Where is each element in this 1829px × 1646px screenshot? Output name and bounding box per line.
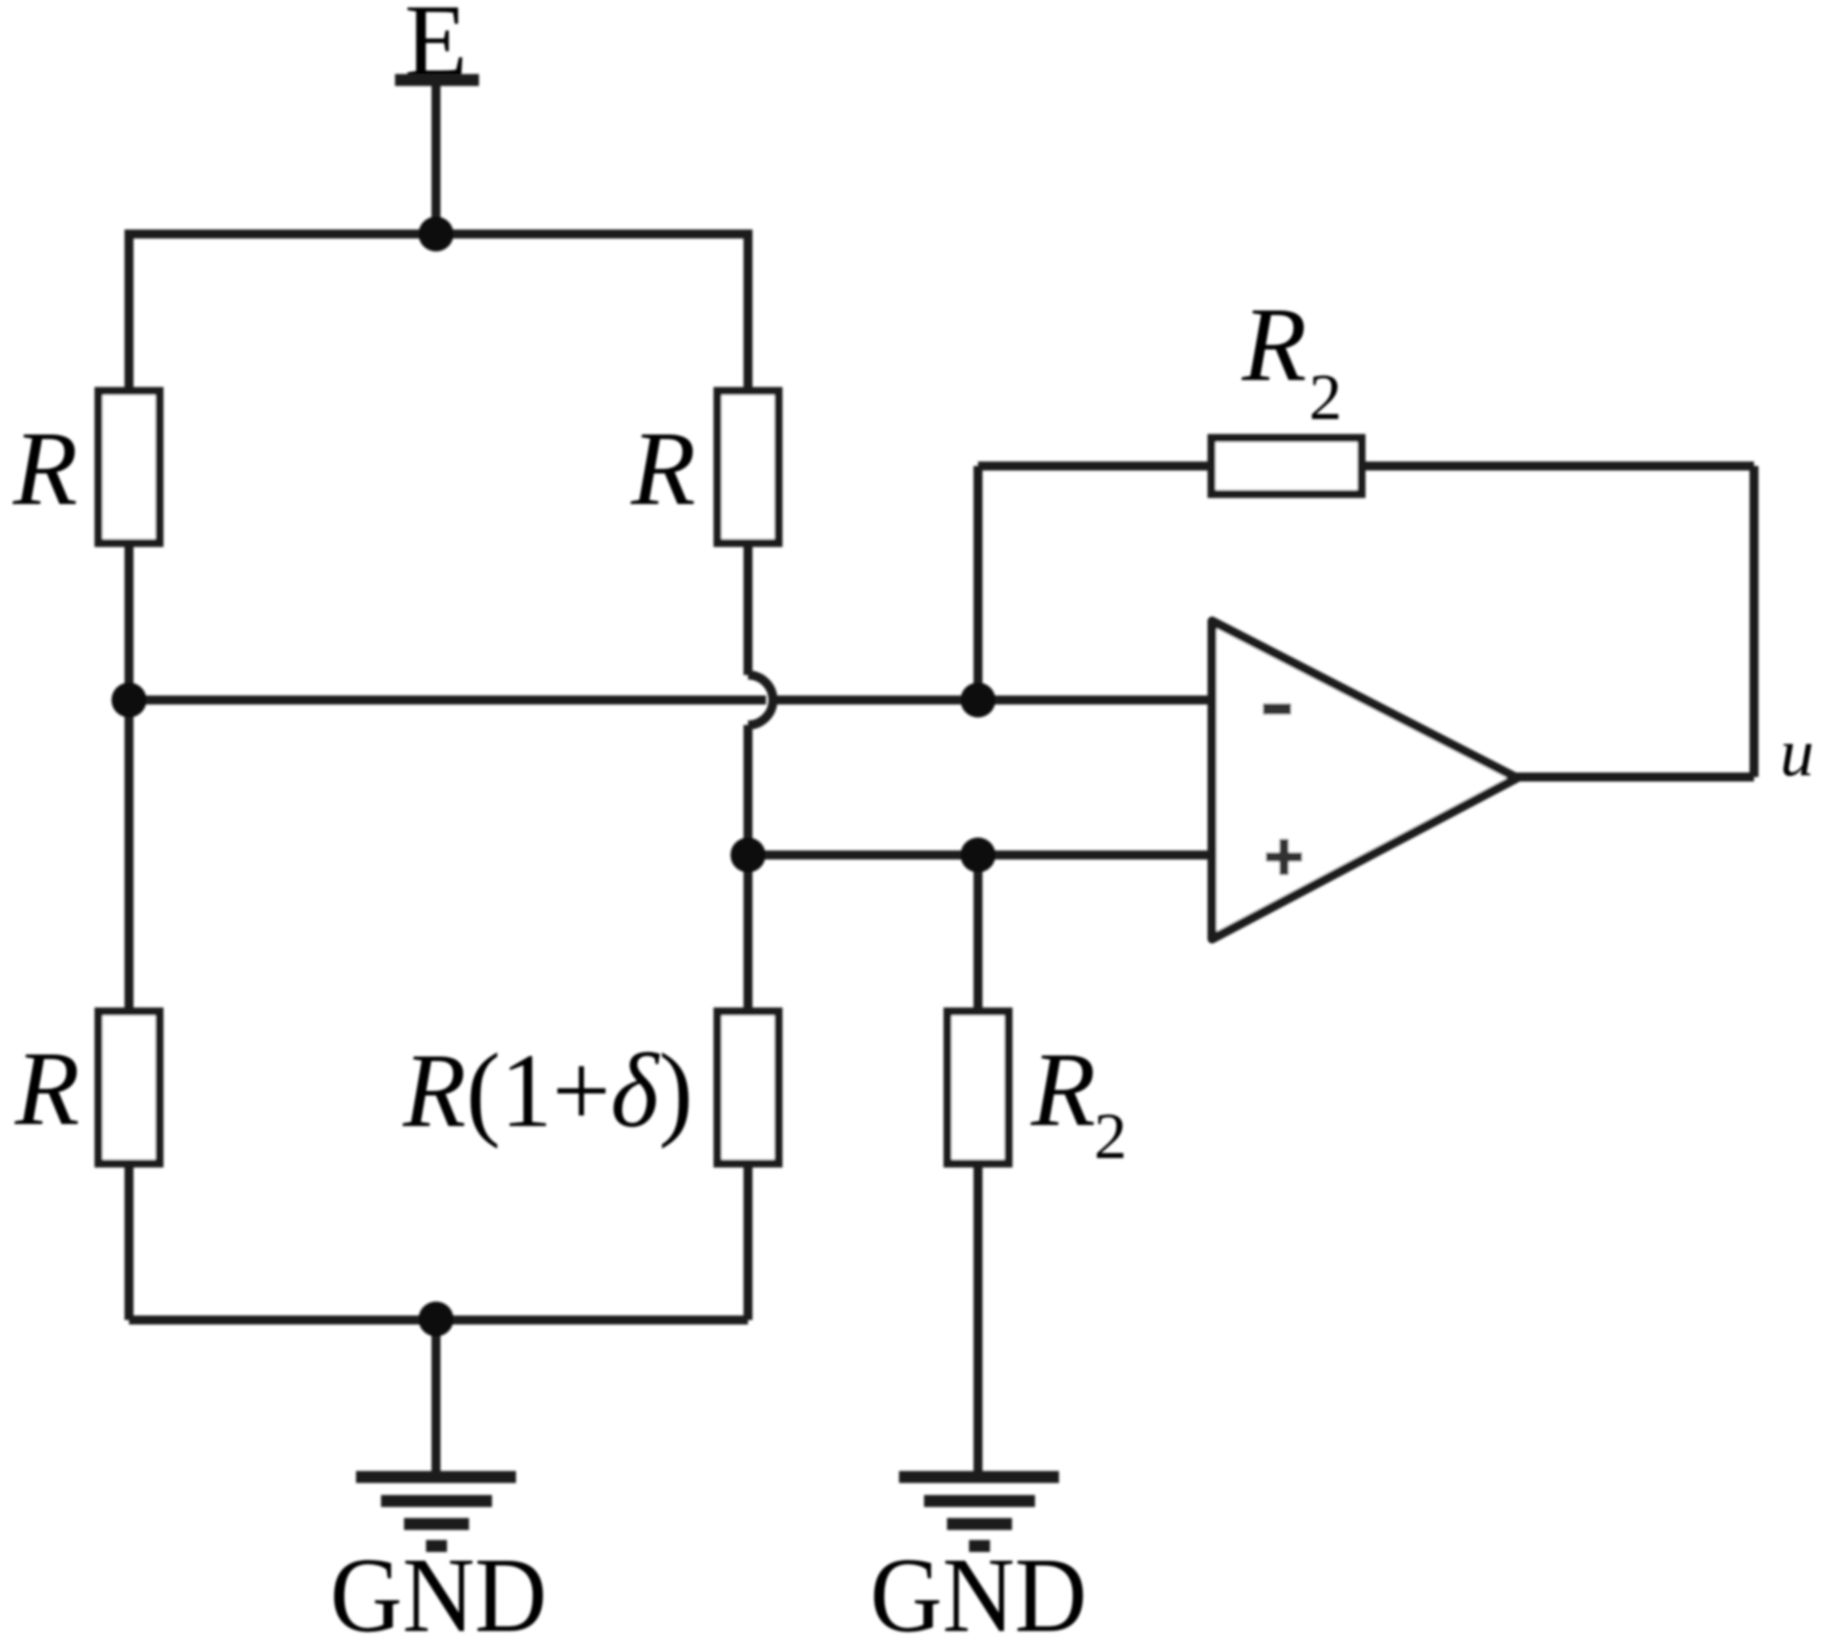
resistor R bottom-left: [99, 1012, 160, 1164]
wire op-amp output: [1513, 773, 1754, 782]
wire hop over mid wire: [748, 675, 773, 725]
node non-inverting dot: [961, 838, 996, 873]
resistor R top-left: [99, 391, 160, 543]
svg-text:GND: GND: [870, 1537, 1087, 1646]
node inverting input dot: [961, 683, 996, 718]
node bridge right dot: [731, 838, 766, 873]
svg-text:R: R: [12, 410, 78, 527]
wire bridge mid right to op-amp inverting input: [769, 696, 1212, 705]
resistor R2 feedback: [1212, 438, 1362, 494]
svg-text:R: R: [14, 1030, 80, 1147]
resistor R2 ground leg: [948, 1012, 1009, 1164]
op-amp plus pin mark: [1266, 853, 1302, 862]
supply E bar: [395, 74, 479, 86]
node E junction dot: [419, 217, 454, 252]
ground symbol right: [899, 1477, 1059, 1546]
svg-text:R: R: [1030, 1031, 1096, 1148]
wire plus bus to op-amp non-inverting input: [748, 851, 1212, 860]
wire bridge mid left: [129, 696, 766, 705]
wire left column: [125, 391, 134, 1320]
node bridge left dot: [112, 683, 147, 718]
op-amp minus pin mark: [1263, 704, 1291, 715]
wire top bus: [129, 234, 748, 391]
svg-text:2: 2: [1309, 361, 1342, 434]
wire feedback down to output: [1750, 466, 1759, 777]
svg-text:R(1+δ): R(1+δ): [402, 1032, 693, 1149]
svg-text:2: 2: [1094, 1100, 1127, 1173]
wire R2 ground leg: [974, 855, 983, 1475]
op-amp U1: [1212, 621, 1517, 939]
wire right column lower: [744, 725, 753, 1320]
resistor R(1+delta): [718, 1012, 779, 1164]
wire feedback riser: [974, 466, 983, 700]
ground symbol left: [356, 1477, 516, 1546]
svg-text:GND: GND: [330, 1537, 547, 1646]
wire feedback top: [978, 462, 1754, 471]
wire ground stem left: [432, 1320, 441, 1475]
resistor R top-right: [718, 391, 779, 543]
svg-text:u: u: [1780, 714, 1814, 790]
svg-text:R: R: [1241, 286, 1307, 403]
node ground junction dot: [419, 1302, 454, 1337]
wire E to top bus: [432, 80, 441, 234]
wire right column upper: [744, 391, 753, 675]
svg-text:R: R: [630, 410, 696, 527]
wire bottom bus: [129, 1316, 748, 1325]
